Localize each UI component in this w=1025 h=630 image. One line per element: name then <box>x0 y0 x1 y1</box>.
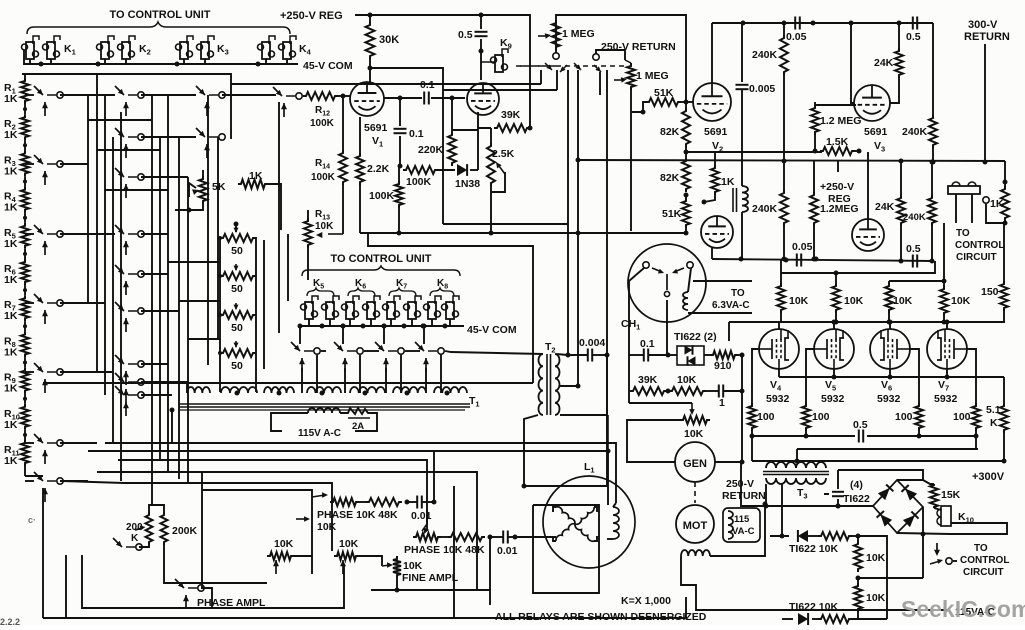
svg-text:+300V: +300V <box>972 471 1005 483</box>
resistor 51K (2) <box>682 198 690 228</box>
svg-text:50: 50 <box>231 283 243 295</box>
svg-text:910: 910 <box>714 360 732 372</box>
dashed contact row <box>520 65 625 67</box>
wire 5K bottom <box>175 204 203 210</box>
capacitor 0.05 bottom <box>796 254 798 267</box>
resistor R6 1K <box>21 259 29 285</box>
tube V1b <box>467 83 499 115</box>
matrix switches column 2 <box>115 86 124 95</box>
resistor 10K vert1 <box>854 541 862 572</box>
wire fine bottom <box>396 578 398 590</box>
diode pair TI622 (2) <box>677 346 704 365</box>
resistor 39K mid <box>630 387 667 395</box>
svg-text:50: 50 <box>231 322 243 334</box>
wire coupling <box>741 90 743 186</box>
relay K1 contact a <box>26 42 34 59</box>
matrix up-arrows col 2 <box>125 102 127 116</box>
capacitor 0.5 top <box>475 31 488 33</box>
wire 6.3 bottom <box>688 312 752 314</box>
wire mot coil right <box>710 504 765 556</box>
resistor R14 100K <box>339 150 347 185</box>
svg-text:TO CONTROL UNIT: TO CONTROL UNIT <box>330 253 431 265</box>
svg-text:1K: 1K <box>249 170 263 182</box>
resistor 1K (V2) <box>711 165 719 195</box>
wire 100-1 bottom <box>751 436 753 461</box>
svg-text:0.01: 0.01 <box>411 510 432 522</box>
transformer T1 core <box>180 403 470 405</box>
dashed wire K9 <box>516 65 556 67</box>
potentiometer 50 #2 <box>220 272 256 280</box>
bridge rectifier TI622 (4) <box>873 480 923 533</box>
coupling coils <box>732 188 734 212</box>
matrix up-arrows col 1 <box>44 102 46 116</box>
junction 48k2 <box>488 535 493 540</box>
svg-text:5932: 5932 <box>821 393 845 405</box>
resistor 10K (a) <box>777 283 785 313</box>
resistor 10K (d) <box>940 286 948 316</box>
wire bridge top feed <box>838 470 923 480</box>
matrix up-arrow col 4 <box>283 103 285 117</box>
resistor 1K (5K row) <box>238 180 268 189</box>
svg-text:240K: 240K <box>902 126 928 138</box>
svg-text:10K: 10K <box>315 221 334 232</box>
wire 5K-1K <box>202 170 204 176</box>
fuse box 115V A-C 2A <box>271 413 308 431</box>
matrix horizontal steps <box>60 94 115 96</box>
junction ch1 wire <box>666 353 671 358</box>
svg-text:5691: 5691 <box>864 126 888 138</box>
capacitor 0.5 bottom <box>912 255 914 268</box>
wire row2 <box>782 618 793 620</box>
relay K3 contact b <box>201 42 209 59</box>
wire T2 right bottom <box>560 385 578 387</box>
svg-text:150: 150 <box>981 286 999 298</box>
potentiometer 10K FINE AMPL <box>393 556 401 578</box>
relay K9 contact <box>495 55 503 72</box>
resistor R11 1K <box>21 440 29 466</box>
svg-text:10K: 10K <box>951 295 971 307</box>
svg-text:10K: 10K <box>403 560 423 572</box>
svg-text:GEN: GEN <box>683 458 707 470</box>
svg-text:TO: TO <box>731 288 745 299</box>
svg-text:10K: 10K <box>789 295 809 307</box>
matrix vertical wires group3 <box>207 95 209 365</box>
potentiometer 1 MEG (1) <box>552 20 560 50</box>
wire 45V com bus <box>22 74 231 139</box>
resistor 220K <box>448 132 456 166</box>
wire bridge right down <box>922 507 924 578</box>
svg-text:0.1: 0.1 <box>420 79 435 91</box>
resistor 240K (2) <box>929 115 937 148</box>
svg-text:1.5K: 1.5K <box>826 136 849 148</box>
resistor 100 (4) <box>972 403 980 431</box>
svg-text:TI622 10K: TI622 10K <box>789 601 838 613</box>
wire V6 top <box>889 322 891 329</box>
resistor 24K (2) <box>897 195 905 226</box>
wire 5.1K bottom <box>1003 433 1005 461</box>
svg-text:15K: 15K <box>941 489 961 501</box>
svg-text:2.2K: 2.2K <box>367 163 390 175</box>
svg-text:(4): (4) <box>850 479 863 491</box>
resistor 15K <box>923 480 934 484</box>
matrix switches column 1 <box>34 86 43 95</box>
arrow down control <box>936 543 938 553</box>
resistor R9 1K <box>21 368 29 394</box>
dashed gen-mot <box>694 482 696 503</box>
resistor 100 (3) <box>915 403 923 431</box>
wire 6.3 top <box>693 280 752 282</box>
CH1 bottom wire <box>666 300 668 355</box>
bus y161 <box>578 160 1005 161</box>
bus y449 <box>797 448 978 450</box>
junction <box>405 500 410 505</box>
wire 10k pot feed <box>629 402 692 404</box>
resistor 100 (2) <box>802 403 810 431</box>
bus y322 <box>729 321 1005 323</box>
wire T1 switch out <box>321 350 326 352</box>
switch T1 #4 <box>415 342 424 351</box>
switch T1 #2 <box>334 342 343 351</box>
resistor 1K right <box>1001 186 1009 221</box>
wire 1MEG box <box>556 15 686 102</box>
resistor 10K mid <box>669 387 706 395</box>
resistor 48K (1) <box>366 498 402 506</box>
matrix up-arrows col 3 <box>206 102 208 116</box>
svg-text:TI622: TI622 <box>843 493 870 505</box>
wire mot coil <box>681 550 710 556</box>
svg-text:200: 200 <box>126 522 143 533</box>
CH1 contacts <box>643 262 649 268</box>
tube V7 5932 <box>927 329 967 369</box>
bus y383 <box>43 382 533 384</box>
wire V3a grid <box>815 104 856 106</box>
svg-text:5932: 5932 <box>766 393 790 405</box>
svg-text:100K: 100K <box>406 176 432 188</box>
svg-text:MOT: MOT <box>683 520 708 532</box>
potentiometer PHASE 10K (2) <box>413 533 441 541</box>
wire 30K to V1 <box>369 59 371 84</box>
up arrow T1 #2 <box>344 358 346 372</box>
capacitor 0.004 <box>587 349 589 362</box>
svg-text:VA-C: VA-C <box>732 526 755 537</box>
resistor 1.2MEG (2) <box>810 192 818 226</box>
left chain wire <box>24 74 26 78</box>
wire to L1 <box>515 536 556 538</box>
svg-text:2.5K: 2.5K <box>492 148 515 160</box>
wire row1 right <box>858 536 887 619</box>
resistor R8 1K <box>21 331 29 357</box>
resistor 10K row2 <box>818 615 852 623</box>
wire V7 right <box>967 349 976 403</box>
capacitor TI622 input <box>837 470 839 489</box>
bus y460 <box>118 460 427 531</box>
tube V3a 5691 <box>854 85 890 121</box>
svg-text:1K: 1K <box>4 455 18 467</box>
wire bridge left <box>766 505 873 507</box>
verticals from dashed row <box>540 70 542 84</box>
wire y355 left <box>628 355 630 403</box>
svg-text:24K: 24K <box>875 201 895 213</box>
potentiometer R13 10K <box>304 218 312 248</box>
motor MOT <box>676 505 714 543</box>
svg-text:5691: 5691 <box>704 126 728 138</box>
resistor 10K (c) <box>885 283 893 313</box>
terminal 1K right <box>983 197 989 203</box>
svg-text:0.5: 0.5 <box>853 419 868 431</box>
capacitor 1 <box>718 385 720 398</box>
wire V2a cathode <box>478 112 491 128</box>
resistor 240K (1) <box>780 35 788 75</box>
svg-text:1K: 1K <box>4 129 18 141</box>
svg-text:RETURN: RETURN <box>964 31 1010 43</box>
svg-text:39K: 39K <box>638 374 658 386</box>
relay K7 contact b <box>408 302 416 319</box>
tube V3b <box>852 219 884 251</box>
matrix switch 200K row <box>113 538 122 547</box>
svg-text:1K: 1K <box>4 274 18 286</box>
capacitor 0.05 top <box>794 17 796 30</box>
matrix vertical wires group1 <box>87 95 89 303</box>
relay K8 contact b <box>446 302 454 319</box>
svg-text:10K: 10K <box>339 538 359 550</box>
T1 coil dots <box>235 391 240 396</box>
resistor 39K top <box>494 124 530 132</box>
bus y588 switch wire <box>201 588 212 608</box>
svg-text:1K: 1K <box>4 383 18 395</box>
svg-text:1: 1 <box>719 397 725 409</box>
capacitor 0.1 mid <box>643 349 645 362</box>
svg-text:+250-V: +250-V <box>820 181 854 193</box>
svg-text:5691: 5691 <box>364 122 388 134</box>
svg-text:TO: TO <box>974 543 988 554</box>
tube V5 5932 <box>814 329 854 369</box>
svg-text:300-V: 300-V <box>968 19 998 31</box>
wire x607 down <box>606 355 608 486</box>
svg-text:0.5: 0.5 <box>458 29 473 41</box>
potentiometer 50 #3 <box>220 311 256 319</box>
svg-text:10K: 10K <box>684 428 704 440</box>
resistor 82K (1) <box>682 108 690 147</box>
resistor R2 1K <box>21 114 29 140</box>
svg-text:5.1: 5.1 <box>986 404 1001 416</box>
bus y618 <box>66 555 686 618</box>
switch T1 #3 <box>375 342 384 351</box>
bus y224 <box>443 223 568 225</box>
svg-text:6.3VA-C: 6.3VA-C <box>712 300 750 311</box>
wire 200K top <box>149 505 164 512</box>
svg-text:82K: 82K <box>660 172 680 184</box>
svg-text:1.2MEG: 1.2MEG <box>820 203 859 215</box>
relay row bottom bus wire <box>24 50 298 64</box>
svg-text:100: 100 <box>812 411 830 423</box>
tube V2b <box>701 216 733 248</box>
svg-text:TO CONTROL UNIT: TO CONTROL UNIT <box>109 9 210 21</box>
svg-text:ALL RELAYS ARE SHOWN DEENERGIZ: ALL RELAYS ARE SHOWN DEENERGIZED <box>495 611 707 623</box>
up arrow T1 #3 <box>385 358 387 372</box>
svg-text:0.005: 0.005 <box>749 83 775 95</box>
up arrow T1 #1 <box>301 358 303 372</box>
wire y84 y90 <box>443 89 557 91</box>
relay K2 contact a <box>101 42 109 59</box>
svg-text:PHASE 10K 48K: PHASE 10K 48K <box>404 544 485 556</box>
L1 wires <box>533 505 599 593</box>
wire +250 bus <box>355 15 530 128</box>
wire 48k2 down <box>489 537 491 605</box>
svg-text:1N38: 1N38 <box>455 178 480 190</box>
resistor 24K (1) <box>895 48 903 78</box>
svg-text:51K: 51K <box>662 208 682 220</box>
resistor 51K (1) <box>646 98 681 106</box>
T1 switch feeds <box>299 326 301 344</box>
wire 0.01 up <box>433 450 435 502</box>
svg-text:K: K <box>990 417 998 429</box>
T3 lower leads <box>765 484 767 506</box>
svg-text:100K: 100K <box>369 190 395 202</box>
wire R14 down <box>342 185 344 234</box>
svg-text:1K: 1K <box>4 346 18 358</box>
wiper arrow pot1b <box>296 518 307 520</box>
CH1 coil 6.3VAC <box>683 292 688 310</box>
svg-text:1K: 1K <box>4 165 18 177</box>
resistor R1 1K <box>21 78 29 104</box>
resistor 82K (2) <box>682 158 690 192</box>
relay K1 contact b <box>47 42 55 59</box>
wire R13 <box>307 248 309 280</box>
diode TI622 row1 <box>798 530 808 542</box>
matrix switches column 4 <box>273 87 282 96</box>
relay K4 contact b <box>283 42 291 59</box>
relay K10 <box>941 506 951 526</box>
svg-text:2A: 2A <box>352 421 364 432</box>
relay K2 contact b <box>122 42 130 59</box>
capacitor 0.01 (1) <box>416 496 418 509</box>
bus y246 <box>368 233 533 383</box>
svg-text:115V A-C: 115V A-C <box>298 428 341 439</box>
svg-text:100: 100 <box>953 411 971 423</box>
wire 1K right <box>268 184 281 230</box>
wire V6 right <box>910 349 919 403</box>
svg-text:TO: TO <box>956 228 970 239</box>
svg-text:240K: 240K <box>752 203 778 215</box>
resistor 2.2K <box>356 153 364 185</box>
svg-text:1 MEG: 1 MEG <box>562 28 595 40</box>
wire V4 left <box>752 349 759 403</box>
wire V2a plate <box>711 23 713 83</box>
resistor 5.1K <box>1000 403 1008 433</box>
svg-text:0.1: 0.1 <box>640 338 655 350</box>
svg-text:50: 50 <box>231 360 243 372</box>
tube V2a 5691 <box>693 83 731 121</box>
wire +250 tick <box>837 161 839 172</box>
L1 X winding <box>556 507 575 524</box>
brace mid <box>302 266 460 276</box>
svg-text:CONTROL: CONTROL <box>955 240 1004 251</box>
pot1 wiper wire <box>311 497 313 574</box>
relay K8 contact a <box>428 302 436 319</box>
wire phase pot1 feed <box>202 490 312 497</box>
svg-text:30K: 30K <box>379 34 399 46</box>
relay K3 contact a <box>180 42 188 59</box>
resistor 48K (2) <box>448 533 485 541</box>
wire 10K left <box>294 555 312 557</box>
capacitor 0.1 top <box>423 92 425 105</box>
svg-text:240K: 240K <box>752 49 778 61</box>
svg-text:0.1: 0.1 <box>409 128 424 140</box>
matrix switches column 3 <box>196 86 205 95</box>
wire 10kc top <box>889 223 944 281</box>
svg-text:115: 115 <box>734 514 750 525</box>
svg-text:K: K <box>131 533 139 544</box>
svg-text:CONTROL: CONTROL <box>960 555 1009 566</box>
relay K5 contact a <box>305 302 313 319</box>
svg-text:K=X 1,000: K=X 1,000 <box>621 595 671 607</box>
wire V7 top <box>946 322 948 329</box>
potentiometer 10K left <box>267 552 294 560</box>
potentiometer 200 K <box>146 512 153 545</box>
svg-text:100: 100 <box>895 411 913 423</box>
diode 1N38 <box>438 169 455 171</box>
svg-text:50: 50 <box>231 245 243 257</box>
svg-text:100K: 100K <box>311 172 336 183</box>
svg-text:39K: 39K <box>501 109 521 121</box>
svg-text:TI622 10K: TI622 10K <box>789 543 838 555</box>
bus y152 <box>685 147 687 152</box>
wire gen right <box>715 461 742 463</box>
svg-text:1 MEG: 1 MEG <box>636 70 669 82</box>
svg-text:10K: 10K <box>866 552 886 564</box>
wire T2 right top <box>556 354 568 355</box>
svg-text:CIRCUIT: CIRCUIT <box>963 567 1004 578</box>
capacitor 0.005 <box>736 84 749 86</box>
svg-text:100K: 100K <box>310 118 335 129</box>
terminal 250v return <box>593 54 599 60</box>
capacitor 0.5 top right <box>912 17 914 30</box>
diode TI622 row2 <box>798 613 808 625</box>
svg-text:c·: c· <box>28 515 36 525</box>
bus y472 <box>97 472 477 590</box>
up arrow T1 #4 <box>425 358 427 372</box>
wire 1meg2 feed <box>596 50 625 60</box>
relay K5-K8 bottom bus <box>302 325 464 327</box>
generator GEN <box>675 442 715 482</box>
resistor R12 100K <box>303 92 338 100</box>
transformer T3 upper <box>766 462 826 468</box>
relay K8 brace <box>430 288 454 296</box>
resistor 150 <box>1000 281 1008 311</box>
potentiometer 10K mid <box>334 552 359 560</box>
wire x742 <box>741 355 743 462</box>
svg-text:45-V COM: 45-V COM <box>303 60 353 72</box>
resistor R4 1K <box>21 187 29 213</box>
transformer T2 <box>539 354 544 415</box>
svg-text:1K: 1K <box>4 238 18 250</box>
svg-text:200K: 200K <box>172 525 198 537</box>
wire 200K bottom <box>139 545 149 547</box>
50 ladder feed wires <box>235 224 237 232</box>
tube V4 5932 <box>759 329 799 369</box>
svg-text:PHASE 10K 48K: PHASE 10K 48K <box>317 509 398 521</box>
svg-text:240K: 240K <box>903 212 926 223</box>
bus tube bottoms <box>778 369 780 377</box>
svg-text:10K: 10K <box>677 374 697 386</box>
resistor 10K row1 <box>818 532 852 540</box>
resistor R10 1K <box>21 404 29 430</box>
svg-text:FINE AMPL: FINE AMPL <box>402 572 459 584</box>
potentiometer 50 #4 <box>220 349 256 357</box>
svg-text:1K: 1K <box>4 93 18 105</box>
CH1 contact wires <box>629 268 644 355</box>
svg-text:250-V RETURN: 250-V RETURN <box>601 41 676 53</box>
